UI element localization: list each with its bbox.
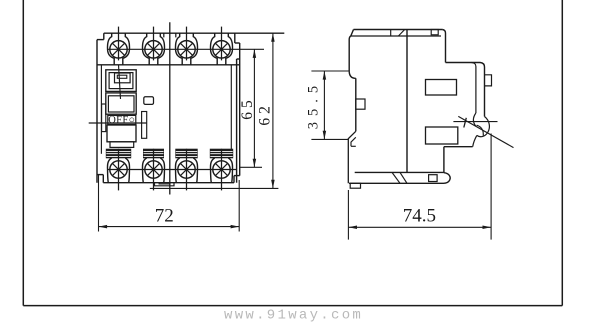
svg-text:72: 72 bbox=[155, 206, 174, 227]
svg-text:62: 62 bbox=[257, 102, 274, 126]
svg-text:35.5: 35.5 bbox=[305, 80, 321, 129]
svg-text:65: 65 bbox=[239, 96, 256, 120]
svg-text:www.91way.com: www.91way.com bbox=[224, 308, 363, 324]
svg-text:74.5: 74.5 bbox=[403, 206, 436, 227]
